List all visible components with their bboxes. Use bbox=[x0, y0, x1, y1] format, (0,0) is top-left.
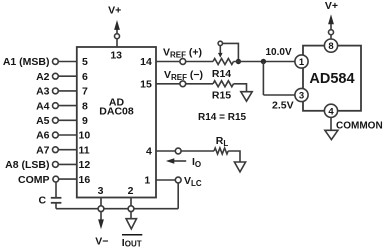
svg-text:11: 11 bbox=[79, 144, 90, 156]
wire RL to ground bbox=[228, 151, 240, 162]
svg-text:1: 1 bbox=[144, 175, 150, 187]
input terminal A4 bbox=[36, 100, 58, 112]
U2 pin 8 circle bbox=[324, 39, 337, 52]
wire pin 4 to IO terminal bbox=[156, 150, 175, 152]
resistor R14 bbox=[213, 59, 233, 65]
svg-text:16: 16 bbox=[79, 174, 91, 186]
svg-text:IO: IO bbox=[192, 156, 201, 169]
wire 2.5V row to U2 pin 3 bbox=[263, 94, 295, 96]
V+ supply arrow (U2) bbox=[328, 14, 334, 29]
input terminal A2 bbox=[36, 71, 58, 83]
wire pin 1 to VLC terminal bbox=[156, 179, 175, 181]
ground (COMMON) bbox=[325, 130, 338, 139]
svg-text:4: 4 bbox=[146, 146, 152, 158]
svg-text:RL: RL bbox=[216, 135, 229, 148]
IO terminal circle bbox=[175, 148, 181, 154]
wire A7 to pin 11 bbox=[59, 149, 77, 151]
svg-text:VREF (−): VREF (−) bbox=[164, 69, 203, 82]
input terminal A5 bbox=[36, 115, 58, 127]
svg-text:A1 (MSB): A1 (MSB) bbox=[3, 56, 50, 68]
svg-text:VREF (+): VREF (+) bbox=[163, 47, 202, 60]
wire IO terminal to RL bbox=[181, 150, 214, 152]
input terminal A7 bbox=[36, 144, 58, 156]
wire VREF(+) terminal to R14 bbox=[186, 61, 213, 63]
input terminal A6 bbox=[36, 130, 58, 142]
svg-text:12: 12 bbox=[79, 159, 91, 171]
wire VLC terminal down to bottom rail bbox=[177, 183, 179, 209]
resistor RL bbox=[214, 148, 228, 154]
svg-text:A5: A5 bbox=[36, 115, 50, 127]
wire U2 pin 8 to V+ terminal bbox=[330, 35, 332, 39]
svg-text:2: 2 bbox=[128, 185, 134, 197]
svg-text:14: 14 bbox=[140, 56, 152, 68]
input terminal COMP bbox=[18, 174, 59, 186]
svg-text:6: 6 bbox=[82, 71, 88, 83]
ground (IOUT-bar) bbox=[126, 219, 136, 229]
svg-text:C: C bbox=[39, 195, 47, 207]
wire A6 to pin 10 bbox=[59, 134, 77, 136]
wire A2 to pin 6 bbox=[59, 75, 77, 77]
svg-text:A2: A2 bbox=[36, 71, 50, 83]
svg-text:8: 8 bbox=[82, 100, 88, 112]
wire pin 13 up to V+ terminal bbox=[116, 39, 118, 48]
wire R15 to ground bbox=[234, 84, 247, 92]
svg-text:1: 1 bbox=[299, 57, 305, 68]
potentiometer wiper terminal circle bbox=[218, 41, 222, 45]
svg-text:3: 3 bbox=[299, 91, 304, 102]
svg-text:R14 = R15: R14 = R15 bbox=[198, 112, 247, 123]
U2 pin 3 circle bbox=[295, 88, 308, 101]
VREF(-) terminal circle bbox=[180, 81, 186, 87]
svg-text:V+: V+ bbox=[325, 0, 338, 12]
wire R14 junction to 10.0V node bbox=[234, 61, 295, 63]
svg-text:COMMON: COMMON bbox=[336, 120, 383, 131]
svg-text:3: 3 bbox=[98, 185, 104, 197]
wire COMP to pin 16 bbox=[59, 178, 77, 180]
VREF(+) terminal circle bbox=[180, 59, 186, 65]
svg-text:2.5V: 2.5V bbox=[272, 99, 294, 111]
wire pin 3 to bottom rail bbox=[100, 198, 102, 209]
wire pin 14 to VREF(+) terminal bbox=[156, 61, 180, 63]
resistor R15 bbox=[213, 81, 233, 87]
svg-text:A3: A3 bbox=[36, 86, 50, 98]
svg-text:R15: R15 bbox=[212, 90, 231, 102]
VLC terminal circle bbox=[175, 177, 181, 183]
input terminal A8 (LSB) bbox=[5, 159, 58, 171]
svg-text:A4: A4 bbox=[36, 100, 50, 112]
svg-text:7: 7 bbox=[82, 86, 88, 98]
wire IOUT terminal to ground bbox=[130, 212, 132, 219]
svg-text:V+: V+ bbox=[108, 5, 121, 17]
IC U2 AD584 body bbox=[303, 46, 361, 111]
wire pin 15 to VREF(-) terminal bbox=[156, 83, 180, 85]
wire A1 to pin 5 bbox=[59, 61, 77, 63]
wire pin 2 to bottom rail bbox=[130, 198, 132, 209]
svg-text:R14: R14 bbox=[212, 68, 231, 80]
junction 10.0V node bbox=[261, 59, 266, 64]
capacitor C bbox=[51, 198, 62, 203]
wire A3 to pin 7 bbox=[59, 90, 77, 92]
V- supply arrow bbox=[98, 212, 104, 229]
svg-text:9: 9 bbox=[82, 115, 88, 127]
wire 10.0V node down to 2.5V row bbox=[262, 62, 264, 96]
svg-text:DAC08: DAC08 bbox=[99, 106, 134, 118]
ground (RL) bbox=[234, 162, 245, 172]
U2 pin 1 circle bbox=[295, 55, 308, 68]
svg-text:4: 4 bbox=[328, 106, 334, 117]
wire COMP node down to capacitor bbox=[55, 182, 57, 198]
wire VREF(-) terminal to R15 bbox=[186, 83, 213, 85]
svg-text:IOUT: IOUT bbox=[122, 237, 142, 249]
IOUT-bar label bbox=[122, 235, 143, 249]
V+ terminal circle (U2) bbox=[329, 30, 334, 35]
svg-text:V−: V− bbox=[95, 236, 108, 248]
wire U2 pin 4 to COMMON ground bbox=[330, 117, 332, 130]
potentiometer wiper arrow into R14 bbox=[218, 46, 223, 58]
V+ terminal circle (pin 13) bbox=[115, 34, 120, 39]
svg-text:A6: A6 bbox=[36, 130, 50, 142]
input terminal A3 bbox=[36, 86, 58, 98]
IC U1 AD DAC08 body bbox=[77, 47, 156, 198]
svg-text:10: 10 bbox=[79, 130, 91, 142]
wire A5 to pin 9 bbox=[59, 119, 77, 121]
node IOUT terminal circle bbox=[128, 206, 134, 212]
wire A8 to pin 12 bbox=[59, 163, 77, 165]
svg-text:COMP: COMP bbox=[18, 174, 50, 186]
svg-text:VLC: VLC bbox=[184, 175, 202, 188]
svg-text:A7: A7 bbox=[36, 144, 50, 156]
IO current direction arrow bbox=[166, 158, 186, 163]
svg-text:5: 5 bbox=[82, 56, 88, 68]
V+ supply arrow (pin 13) bbox=[114, 20, 120, 34]
U1 value label AD DAC08 bbox=[99, 96, 134, 117]
bottom rail wire bbox=[56, 208, 178, 210]
svg-text:13: 13 bbox=[110, 50, 122, 62]
svg-text:10.0V: 10.0V bbox=[266, 47, 292, 58]
junction R14 wiper node bbox=[236, 59, 241, 64]
svg-text:8: 8 bbox=[328, 41, 333, 52]
wire A4 to pin 8 bbox=[59, 105, 77, 107]
wire capacitor to bottom rail bbox=[55, 203, 57, 209]
svg-text:AD584: AD584 bbox=[309, 71, 354, 87]
input terminal A1 (MSB) bbox=[3, 56, 58, 68]
wire wiper to R14 output junction bbox=[223, 43, 239, 61]
svg-text:A8 (LSB): A8 (LSB) bbox=[5, 159, 49, 171]
node V- terminal circle bbox=[98, 206, 104, 212]
ground (R15) bbox=[241, 92, 252, 102]
svg-text:15: 15 bbox=[140, 79, 152, 91]
U2 pin 4 circle bbox=[324, 104, 337, 117]
